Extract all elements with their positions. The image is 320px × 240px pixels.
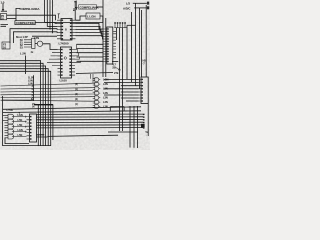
connector pin [147, 6, 149, 9]
svg-text:27k: 27k [114, 71, 119, 75]
node small marks [1, 25, 9, 27]
wire [2, 4, 4, 12]
IC U7 bottom-left [30, 114, 37, 142]
IC U3 box F2 [2, 42, 10, 49]
wire [7, 17, 16, 19]
gate labels A [103, 78, 109, 109]
svg-text:25k: 25k [112, 65, 117, 69]
wire [134, 7, 147, 9]
wire [35, 22, 103, 24]
wire junction vertical [33, 75, 35, 101]
wire stubs into U2 [47, 53, 58, 66]
svg-text:L5.00: L5.00 [60, 79, 68, 83]
gate cluster B (5 gates) [3, 114, 14, 139]
wire gate inputs [1, 83, 93, 101]
svg-text:L=5N: L=5N [7, 108, 13, 112]
pin dots U1 [62, 20, 72, 40]
svg-text:LGN: LGN [18, 128, 23, 132]
svg-text:L LGN: L LGN [87, 15, 95, 19]
node mark U2 center [64, 57, 66, 59]
wire under gates [5, 138, 29, 144]
wire bus U2 right to U5 [77, 44, 104, 61]
wire bus corners into vertical bus [0, 61, 41, 146]
wire long [76, 73, 113, 74]
wire long bus lines [3, 107, 142, 110]
wire [76, 16, 87, 20]
wire grid to J2 [104, 79, 139, 101]
svg-text:(2): (2) [75, 93, 78, 96]
wire grid bottom (6 lines) [37, 113, 144, 115]
wire [2, 96, 4, 146]
junction dots [25, 60, 27, 72]
vertical bus from RN2 [116, 28, 118, 40]
wire [32, 35, 57, 37]
pin labels U5 right [113, 31, 116, 58]
wire [112, 61, 118, 63]
svg-text:(1): (1) [75, 103, 78, 106]
svg-text:↓: ↓ [146, 134, 147, 137]
svg-text:L5N: L5N [18, 123, 23, 127]
resistor pack RN2 top-right [114, 23, 127, 28]
wire gate outputs to U7 [14, 117, 27, 137]
svg-text:COMPELIANKA: COMPELIANKA [20, 7, 41, 11]
wire corner [10, 29, 57, 43]
wire [108, 131, 138, 133]
wire [7, 15, 56, 20]
wire dark [34, 104, 53, 106]
svg-text:L3N: L3N [103, 82, 108, 86]
svg-text:L 2N: L 2N [20, 52, 26, 56]
wire junction vertical [25, 56, 27, 75]
wire [97, 6, 103, 8]
connector J3 pins bottom-right [143, 114, 145, 129]
wire from U7 right [37, 135, 48, 137]
wire stub U1 top-left [58, 14, 60, 19]
IC U6 small box on bus [110, 107, 124, 111]
pin number texts [75, 83, 78, 106]
node A arrow [2, 9, 4, 11]
gate labels B [18, 113, 23, 137]
wire [133, 2, 147, 4]
wire [127, 24, 135, 26]
svg-text:L/3: L/3 [126, 2, 130, 6]
wire [100, 16, 103, 23]
wire vertical right edge [147, 104, 149, 137]
vertical bus pair center-right [102, 0, 104, 77]
wire [3, 99, 34, 101]
svg-text:L3N: L3N [103, 91, 108, 95]
wire [35, 43, 37, 45]
svg-text:LGN: LGN [103, 78, 109, 82]
IC U4 box L LGN [86, 13, 100, 19]
net label COMPECTING [15, 21, 35, 25]
IC U1 [61, 19, 72, 41]
pin dots U5 [107, 28, 109, 62]
svg-text:(2): (2) [75, 98, 78, 101]
IC U5 right-middle [107, 27, 113, 64]
wire staircase into U1 [47, 26, 57, 28]
connector pin [147, 2, 149, 5]
svg-text:L3N: L3N [103, 87, 108, 91]
svg-text:L5N: L5N [34, 36, 39, 40]
svg-text:L3N: L3N [103, 96, 108, 100]
svg-text:L5N: L5N [18, 118, 23, 122]
wire [43, 44, 58, 50]
IC U8 small box [0, 14, 6, 20]
wire top into U1 right [73, 1, 76, 20]
gate cluster A (7 gates) [91, 74, 101, 108]
wire vertical right-bottom [129, 106, 131, 148]
svg-text:A/D/C: A/D/C [123, 6, 131, 10]
svg-text:L5N: L5N [28, 82, 33, 86]
svg-text:LGN: LGN [18, 113, 23, 117]
net label COMPELIANK [76, 1, 78, 11]
svg-text:L3N: L3N [103, 100, 108, 104]
arrow ticks [32, 85, 34, 98]
svg-text:(1): (1) [75, 88, 78, 91]
bus vertical lines top-center [44, 0, 46, 23]
IC U2 [61, 47, 72, 78]
wire [1, 10, 7, 12]
wire corner [14, 32, 58, 43]
svg-text:(2): (2) [75, 83, 78, 86]
wire long bottom [48, 135, 119, 136]
wire bus U1 right to U5 [76, 23, 104, 29]
net labels left cluster [28, 75, 34, 85]
connector J2 right [141, 77, 148, 104]
pin dots U2 [61, 49, 71, 76]
vertical bus center extra [37, 105, 39, 146]
svg-text:COMPECTING: COMPECTING [16, 21, 36, 25]
wire bottom [3, 145, 51, 147]
svg-text:L5N: L5N [18, 133, 23, 137]
junction dot [141, 124, 145, 128]
wire bracket [16, 8, 21, 21]
vertical bus right [126, 25, 128, 79]
svg-text:L74S00: L74S00 [59, 42, 69, 46]
svg-text:COMPELIANK: COMPELIANK [80, 5, 100, 9]
